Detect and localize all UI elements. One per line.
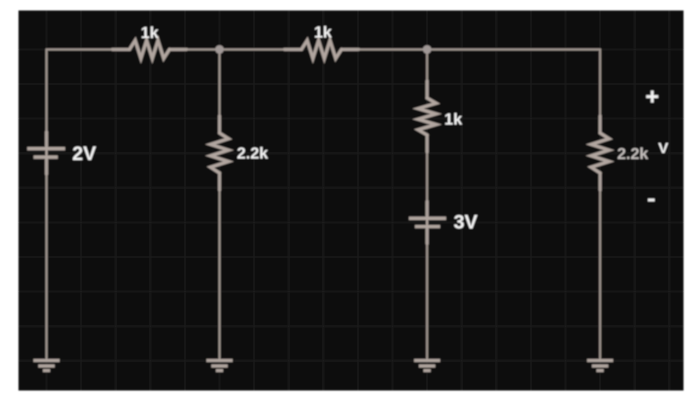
label polarity plus [646, 91, 658, 103]
ground G1 [34, 360, 60, 370]
wire: V2 lead stubs [426, 202, 429, 244]
svg-text:1k: 1k [314, 25, 332, 42]
wire: R3 lead stubs [218, 116, 221, 190]
wire: top rail between R2 and node B, to right corner [343, 48, 601, 50]
node A junction dot [215, 45, 224, 54]
wire: right branch vertical (R5 leads) [599, 49, 601, 359]
resistor R3 2.2k vertical [211, 133, 229, 173]
label polarity minus [648, 199, 655, 202]
svg-text:1k: 1k [141, 25, 159, 42]
node B junction dot [423, 45, 432, 54]
ground G2 [207, 360, 233, 370]
wire: left branch vertical (battery V1 leads) [45, 49, 47, 359]
wire: top rail left segment [47, 48, 130, 50]
wire: branch 3 vertical (R4 and V2 leads) [426, 49, 428, 359]
svg-text:2.2k: 2.2k [617, 146, 648, 163]
wire: branch 2 vertical (R3 leads) [218, 49, 220, 359]
wire: V1 lead stubs [45, 132, 48, 174]
svg-text:3V: 3V [454, 211, 478, 233]
wire: top rail between R1 and node A [170, 48, 302, 50]
ground G4 [587, 360, 613, 370]
battery V1 2V plates [27, 149, 65, 158]
wire: R1 lead stubs [113, 48, 187, 51]
svg-text:2V: 2V [72, 143, 96, 165]
svg-text:1k: 1k [444, 112, 462, 129]
battery V2 3V plates [409, 218, 446, 226]
wire: R2 lead stubs [285, 48, 359, 51]
svg-text:2.2k: 2.2k [237, 145, 268, 162]
ground G3 [414, 360, 440, 370]
wire: R5 lead stubs [599, 116, 602, 190]
resistor R1 1k horizontal [130, 40, 170, 58]
resistor R5 2.2k vertical [591, 133, 609, 173]
svg-text:V: V [658, 140, 668, 157]
resistor R4 1k vertical [418, 98, 436, 135]
wire: R4 lead stubs [426, 81, 429, 152]
resistor R2 1k horizontal [302, 40, 342, 58]
